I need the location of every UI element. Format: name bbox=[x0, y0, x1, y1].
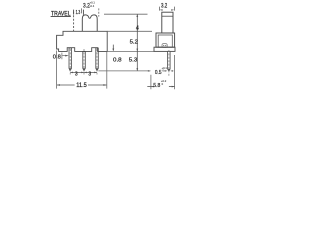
chain arrow down at seating bbox=[136, 49, 138, 52]
dashed travel position line bbox=[73, 12, 75, 32]
pin 1 front bbox=[69, 48, 72, 71]
dimension 5.8 line right bbox=[169, 86, 175, 88]
standoff 0.8 arrow bbox=[112, 45, 114, 51]
0.5 arrow to pin left bbox=[164, 70, 165, 72]
side 3.2 tick left bbox=[158, 7, 160, 11]
svg-text:0.8: 0.8 bbox=[113, 57, 122, 63]
pin tip reference line bbox=[98, 70, 150, 72]
chain arrow down at body top bbox=[136, 29, 138, 32]
pin pitch dimension line bbox=[70, 71, 97, 73]
extension line left for 5.8 bbox=[150, 75, 152, 89]
knob top reference line bbox=[104, 13, 148, 15]
vertical dimension chain line bbox=[136, 14, 138, 71]
front knob with serrated top bbox=[82, 15, 97, 31]
dimension 1.3 right tick bbox=[82, 10, 84, 15]
pitch arrows bbox=[70, 72, 73, 74]
extension line right for 11.5 bbox=[106, 52, 108, 89]
extension line right for 5.8 bbox=[174, 55, 176, 89]
svg-text:1.3: 1.3 bbox=[76, 10, 81, 16]
chain arrow up at knob top bbox=[136, 14, 138, 17]
side 3.2 tick right bbox=[173, 7, 175, 11]
TRAVEL underline bbox=[51, 15, 71, 17]
svg-text:4: 4 bbox=[136, 26, 139, 32]
dimension 5.8 line left bbox=[147, 86, 152, 88]
side pin centerline bbox=[168, 50, 170, 77]
svg-text:5.2: 5.2 bbox=[130, 40, 138, 46]
11.5 arrows bbox=[57, 84, 60, 86]
5.8 arrow left bbox=[151, 86, 154, 88]
svg-text:-0.1: -0.1 bbox=[90, 4, 95, 8]
svg-text:0.5: 0.5 bbox=[155, 70, 162, 76]
front view body outline bbox=[57, 31, 108, 51]
dimension 1.3 left tick bbox=[73, 10, 75, 15]
svg-text:3.2: 3.2 bbox=[161, 3, 168, 10]
side 3.2 arrow left bbox=[160, 9, 163, 11]
pin 2 front bbox=[83, 52, 86, 71]
pin 2 centerline bbox=[83, 49, 85, 75]
extension tick right bbox=[98, 8, 100, 16]
side body outer bbox=[156, 33, 175, 47]
side knob cap line bbox=[162, 15, 173, 17]
svg-text:3: 3 bbox=[88, 71, 91, 77]
extension line left for 11.5 bbox=[56, 51, 58, 89]
side knob bbox=[162, 12, 173, 33]
side pin bbox=[168, 52, 171, 71]
extension tick left bbox=[81, 8, 83, 13]
svg-text:3: 3 bbox=[75, 71, 78, 77]
pin 3 front bbox=[96, 48, 99, 71]
stamp detail bbox=[162, 44, 167, 48]
side base flange bbox=[154, 47, 175, 51]
side 3.2 arrow right bbox=[171, 9, 174, 11]
svg-text:11.5: 11.5 bbox=[76, 83, 87, 89]
pin 1 centerline bbox=[69, 49, 71, 75]
chain arrow down at pin tip bbox=[136, 68, 138, 71]
0.5 arrow to pin right bbox=[172, 70, 174, 72]
dimension 11.5 line bbox=[57, 84, 75, 86]
pin 3 centerline bbox=[96, 49, 98, 75]
svg-text:5.8: 5.8 bbox=[153, 83, 160, 89]
pin width leader arrow bbox=[65, 55, 69, 57]
side body inner bbox=[158, 35, 172, 47]
svg-text:5.3: 5.3 bbox=[129, 57, 137, 63]
body top extension line bbox=[107, 30, 152, 32]
seating plane line bbox=[107, 50, 154, 52]
pin width leader tick bbox=[61, 53, 63, 60]
5.8 arrow right bbox=[172, 86, 175, 88]
